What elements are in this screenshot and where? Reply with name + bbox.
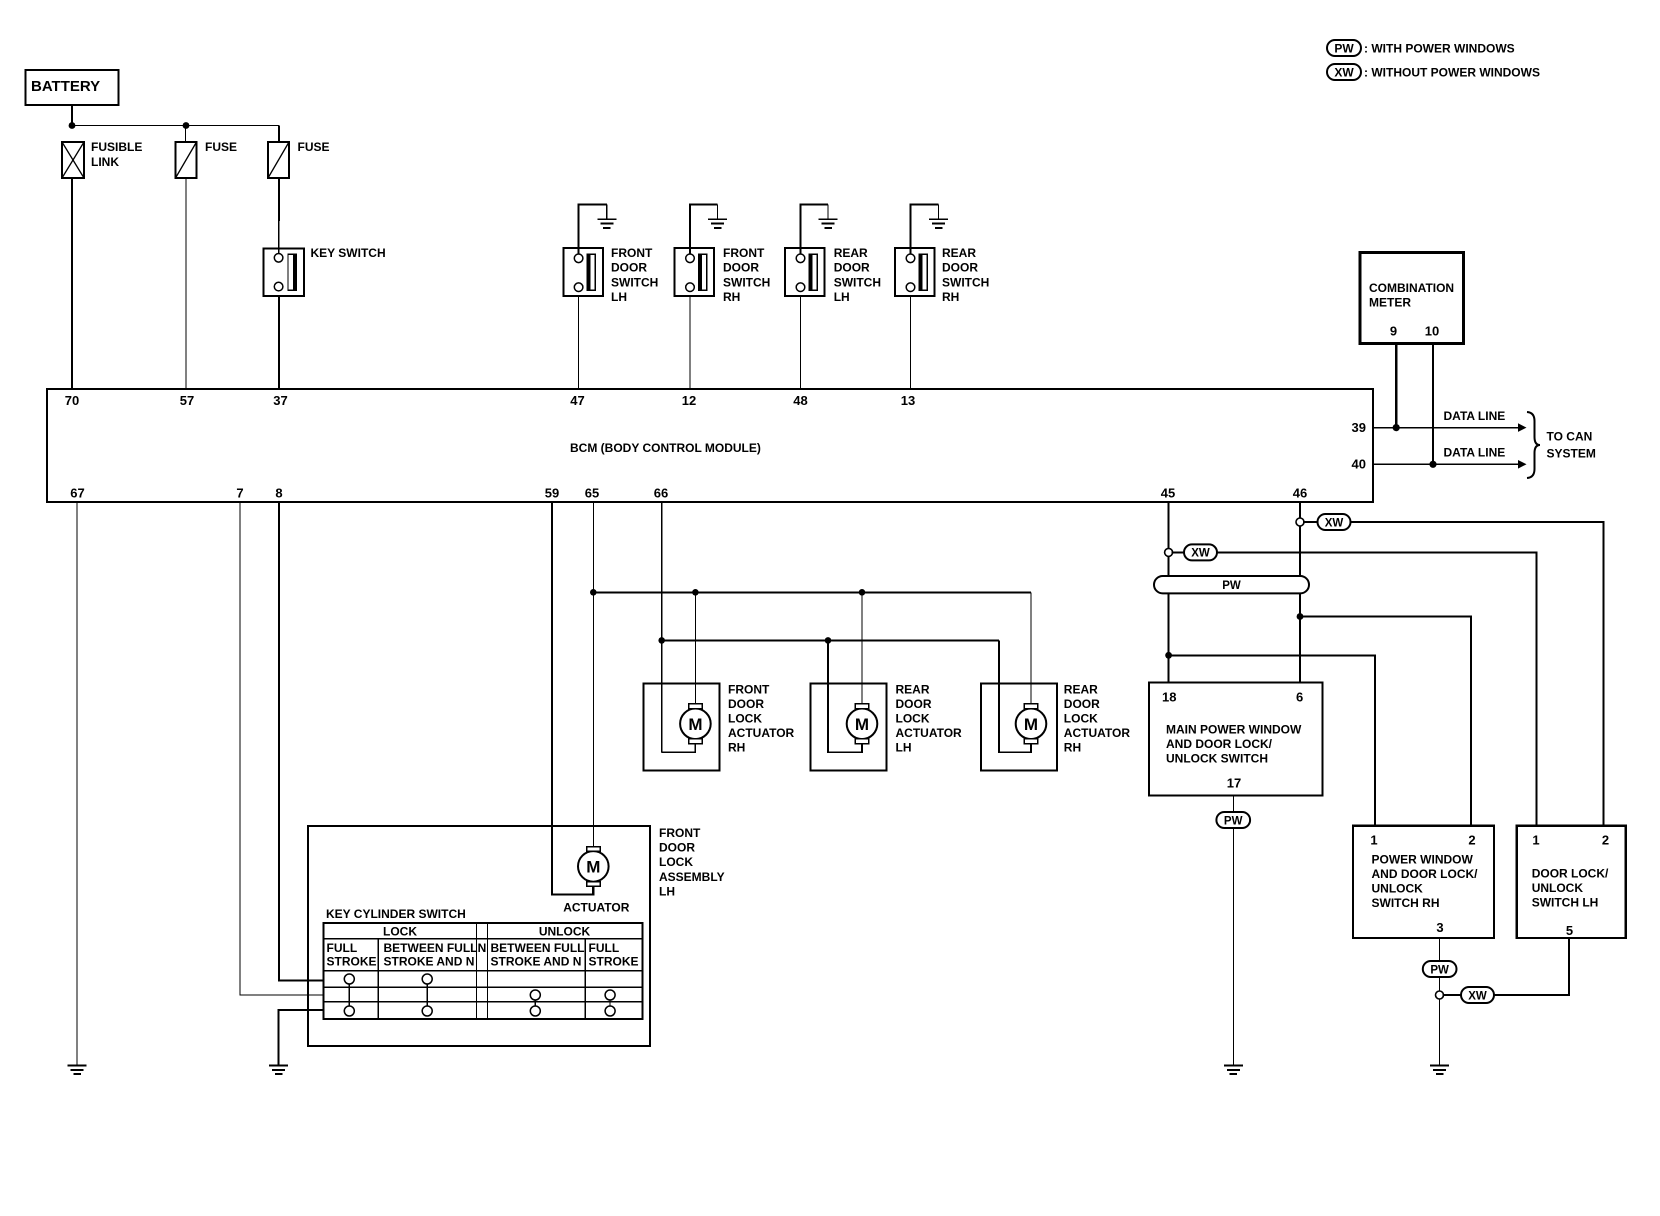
svg-text:RH: RH <box>728 740 745 754</box>
svg-text:FUSIBLE: FUSIBLE <box>91 140 142 154</box>
ground pin 67 <box>68 1065 87 1076</box>
svg-text:ACTUATOR: ACTUATOR <box>1064 726 1131 740</box>
svg-text:FULL: FULL <box>327 941 358 955</box>
wire front actuator RH motor bottom feed <box>662 744 696 753</box>
wire junction B to fuse F1 <box>185 126 187 143</box>
table row A top line <box>323 970 642 972</box>
svg-text:5: 5 <box>1566 923 1573 938</box>
contact col5 row B <box>605 990 615 1000</box>
svg-text:8: 8 <box>275 486 282 501</box>
table N column right line <box>487 923 489 1019</box>
svg-text:9: 9 <box>1390 324 1397 339</box>
svg-text:1: 1 <box>1370 833 1377 848</box>
svg-text:47: 47 <box>570 393 584 408</box>
wire net 66 horizontal <box>662 639 999 641</box>
rear door switch RH <box>895 248 935 296</box>
connector PW pill pin 17 <box>1216 812 1250 828</box>
svg-text:10: 10 <box>1425 324 1439 339</box>
ground front door switch RH <box>708 218 727 229</box>
svg-text:DOOR: DOOR <box>659 841 695 855</box>
wire front door switch RH to BCM pin 12 <box>689 296 691 389</box>
svg-text:ACTUATOR: ACTUATOR <box>896 726 963 740</box>
junction net 65 to front actuator RH <box>692 589 699 596</box>
legend connector XW <box>1327 64 1361 80</box>
svg-text:ACTUATOR: ACTUATOR <box>728 726 795 740</box>
svg-text:LOCK: LOCK <box>383 925 417 939</box>
svg-text:UNLOCK: UNLOCK <box>539 925 591 939</box>
svg-text:REAR: REAR <box>834 246 868 260</box>
wire data line 2 from BCM pin 40 <box>1373 463 1520 465</box>
wire stub pin 45 circle to XW pill <box>1172 551 1185 553</box>
label MAIN POWER WINDOW AND DOOR LOCK UNLOCK SWITCH <box>1166 723 1302 766</box>
svg-text:2: 2 <box>1602 833 1609 848</box>
wire rear actuator LH motor bottom feed <box>828 640 862 752</box>
wire XW net 46 to door lock unlock switch LH pin 2 <box>1351 522 1604 826</box>
ground main switch pin 17 <box>1224 1065 1243 1076</box>
label BETWEEN FULL STROKE AND N col4 <box>491 941 585 969</box>
svg-text:DATA LINE: DATA LINE <box>1444 409 1506 423</box>
contact link col2 <box>426 984 428 1006</box>
junction pin 65 net <box>590 589 597 596</box>
wire BCM pin 59 to assembly actuator motor <box>552 502 593 895</box>
label REAR DOOR LOCK ACTUATOR RH <box>1064 682 1131 754</box>
svg-text:SWITCH: SWITCH <box>834 275 881 289</box>
svg-text:48: 48 <box>793 393 807 408</box>
svg-text:LOCK: LOCK <box>1064 711 1098 725</box>
label REAR DOOR SWITCH LH <box>834 246 881 304</box>
contact col4 row C <box>530 1006 540 1016</box>
svg-text:SWITCH LH: SWITCH LH <box>1532 896 1599 910</box>
contact col2 row C <box>422 1006 432 1016</box>
svg-text:RH: RH <box>723 290 740 304</box>
svg-text:XW: XW <box>1325 517 1344 529</box>
arrow data line 1 <box>1518 423 1527 432</box>
wire BCM pin 46 down to switch pin 6 <box>1299 502 1301 683</box>
wire bus to fuse F2 <box>278 126 280 143</box>
connector circle XW pin 3 <box>1436 991 1444 999</box>
motor M front door lock assembly LH <box>578 847 609 887</box>
rear door switch LH <box>785 248 825 296</box>
svg-text:REAR: REAR <box>942 246 976 260</box>
front door lock assembly LH box <box>308 826 650 1046</box>
svg-text:BATTERY: BATTERY <box>31 78 100 95</box>
svg-text:MAIN POWER WINDOW: MAIN POWER WINDOW <box>1166 723 1302 737</box>
svg-text:PW: PW <box>1222 580 1241 592</box>
contact col5 row C <box>605 1006 615 1016</box>
contact col1 row A <box>344 974 354 984</box>
svg-text:DOOR: DOOR <box>723 261 759 275</box>
svg-text:FUSE: FUSE <box>205 140 237 154</box>
contact col2 row A <box>422 974 432 984</box>
svg-text:XW: XW <box>1191 548 1210 560</box>
wire rear door switch RH to BCM pin 13 <box>910 296 912 389</box>
connector XW pill on pin 45 <box>1184 544 1217 560</box>
svg-text:REAR: REAR <box>1064 682 1098 696</box>
table column separator col1-col2 <box>377 939 379 1019</box>
door lock unlock switch LH box <box>1517 826 1626 938</box>
label FULL STROKE col1 <box>327 941 377 969</box>
svg-text:FRONT: FRONT <box>659 826 701 840</box>
wire combination meter pin 9 to data line <box>1395 344 1397 428</box>
svg-text:KEY CYLINDER SWITCH: KEY CYLINDER SWITCH <box>326 907 466 921</box>
wire combination meter pin 10 to data line <box>1432 344 1434 464</box>
wire PW pin 17 to ground <box>1232 828 1234 1065</box>
ground stem front door switch RH <box>717 205 719 219</box>
svg-text:DOOR: DOOR <box>611 261 647 275</box>
connector PW pill pin 3 <box>1423 961 1457 977</box>
svg-text:LH: LH <box>611 290 627 304</box>
rear door lock actuator LH box <box>811 683 887 770</box>
svg-text:UNLOCK SWITCH: UNLOCK SWITCH <box>1166 752 1268 766</box>
svg-text:AND DOOR LOCK/: AND DOOR LOCK/ <box>1372 867 1479 881</box>
svg-text:COMBINATION: COMBINATION <box>1369 281 1454 295</box>
key switch S1 <box>264 249 305 297</box>
svg-text:PW: PW <box>1224 815 1243 827</box>
junction pin 45 branch <box>1165 652 1172 659</box>
wire stub pin 3 circle to XW pill <box>1443 994 1462 996</box>
ground rear door switch RH <box>929 218 948 229</box>
svg-text:STROKE AND N: STROKE AND N <box>384 954 475 968</box>
svg-text:XW: XW <box>1334 66 1354 80</box>
wire net 65 to front door lock actuator RH motor <box>694 592 696 704</box>
label BETWEEN FULL STROKE AND N col2 <box>384 941 478 969</box>
junction data line 1 <box>1393 424 1400 431</box>
svg-text:PW: PW <box>1430 964 1449 976</box>
contact col4 row B <box>530 990 540 1000</box>
wire BCM pin 65 down <box>592 502 594 847</box>
svg-text:SWITCH: SWITCH <box>942 275 989 289</box>
svg-text:59: 59 <box>545 486 559 501</box>
svg-text:DOOR: DOOR <box>896 697 932 711</box>
svg-text:DOOR LOCK/: DOOR LOCK/ <box>1532 867 1609 881</box>
svg-text:45: 45 <box>1161 486 1175 501</box>
svg-text:PW: PW <box>1334 42 1354 56</box>
svg-text:XW: XW <box>1468 990 1487 1002</box>
table row C top line <box>323 1001 642 1003</box>
svg-text:13: 13 <box>901 393 915 408</box>
svg-text:UNLOCK: UNLOCK <box>1532 881 1584 895</box>
wire stub pin 46 circle to XW pill <box>1303 521 1318 523</box>
fuse F1 <box>176 142 197 178</box>
wire PW pin 3 to ground <box>1439 977 1441 1065</box>
connector PW band over pins 45 and 46 <box>1154 576 1309 593</box>
svg-text:ASSEMBLY: ASSEMBLY <box>659 870 725 884</box>
svg-text:KEY SWITCH: KEY SWITCH <box>311 246 386 260</box>
svg-text:BETWEEN FULL: BETWEEN FULL <box>384 941 478 955</box>
wire rear door switch RH to ground <box>911 205 939 254</box>
svg-text:DOOR: DOOR <box>942 261 978 275</box>
svg-text:LH: LH <box>896 740 912 754</box>
fuse F2 <box>268 142 289 178</box>
label FRONT DOOR LOCK ASSEMBLY LH <box>659 826 725 899</box>
svg-text:SWITCH: SWITCH <box>723 275 770 289</box>
svg-text:LH: LH <box>659 885 675 899</box>
label REAR DOOR SWITCH RH <box>942 246 989 304</box>
contact col1 row C <box>344 1006 354 1016</box>
wire rear door switch LH to ground <box>801 205 829 254</box>
wire rear actuator RH motor bottom feed <box>999 640 1031 752</box>
wire BCM pin 45 down to switch pin 18 <box>1168 502 1170 683</box>
label FRONT DOOR SWITCH RH <box>723 246 770 304</box>
wire key cylinder switch row C to ground <box>279 1010 324 1065</box>
svg-text:6: 6 <box>1296 689 1303 704</box>
svg-text:SWITCH RH: SWITCH RH <box>1372 896 1440 910</box>
svg-text:FULL: FULL <box>589 941 620 955</box>
wire fuse F1 to BCM pin 57 <box>185 178 187 389</box>
front door lock actuator RH box <box>643 683 719 770</box>
svg-text:RH: RH <box>942 290 959 304</box>
svg-text:POWER WINDOW: POWER WINDOW <box>1372 853 1474 867</box>
svg-text:TO CAN: TO CAN <box>1547 430 1593 444</box>
svg-text:12: 12 <box>682 393 696 408</box>
junction A <box>69 122 76 129</box>
junction net 65 to rear actuator LH <box>859 589 866 596</box>
svg-text:REAR: REAR <box>896 682 930 696</box>
junction net 66 to rear actuator LH <box>825 637 832 644</box>
wire net 65 to rear door lock actuator LH motor <box>861 592 863 704</box>
svg-text:2: 2 <box>1468 833 1475 848</box>
svg-text:FRONT: FRONT <box>723 246 765 260</box>
svg-text:DOOR: DOOR <box>1064 697 1100 711</box>
svg-text:ACTUATOR: ACTUATOR <box>563 901 630 915</box>
label TO CAN SYSTEM <box>1547 430 1596 461</box>
label FRONT DOOR LOCK ACTUATOR RH <box>728 682 795 754</box>
label POWER WINDOW AND DOOR LOCK UNLOCK SWITCH RH <box>1372 853 1479 911</box>
wire rear door switch LH to BCM pin 48 <box>800 296 802 389</box>
arrow data line 2 <box>1518 460 1527 469</box>
motor M rear door lock actuator RH <box>1016 704 1047 744</box>
junction pin 46 branch <box>1297 613 1304 620</box>
svg-text:67: 67 <box>70 486 84 501</box>
svg-text:FRONT: FRONT <box>728 682 770 696</box>
connector circle XW pin 46 <box>1296 518 1304 526</box>
power window and door lock unlock switch RH box <box>1353 826 1494 938</box>
svg-text:FUSE: FUSE <box>298 140 330 154</box>
contact link col4 <box>534 1000 536 1006</box>
contact link col1 <box>348 984 350 1006</box>
svg-text:LOCK: LOCK <box>728 711 762 725</box>
fusible link FL <box>62 142 84 178</box>
label FUSIBLE LINK <box>91 140 142 169</box>
svg-text:40: 40 <box>1352 457 1366 472</box>
main power window and door lock unlock switch box <box>1149 683 1323 796</box>
connector XW pill on pin 46 <box>1318 514 1351 530</box>
front door switch RH <box>675 248 715 296</box>
svg-text:18: 18 <box>1162 689 1176 704</box>
svg-text:65: 65 <box>585 486 599 501</box>
svg-text:1: 1 <box>1532 833 1539 848</box>
wire pin 46 branch to power window switch RH pin 2 <box>1300 617 1471 826</box>
key cylinder switch table frame <box>323 923 642 1019</box>
rear door lock actuator RH box <box>981 683 1057 770</box>
svg-text:70: 70 <box>65 393 79 408</box>
wire battery bus <box>72 125 279 127</box>
front door switch LH <box>563 248 603 296</box>
brace to CAN system <box>1527 412 1540 478</box>
connector circle XW pin 45 <box>1165 548 1173 556</box>
svg-text:BCM (BODY CONTROL MODULE): BCM (BODY CONTROL MODULE) <box>570 441 761 455</box>
wire net 65 to rear door lock actuator RH motor <box>1030 592 1032 704</box>
table header separator line <box>323 938 642 940</box>
wire main switch pin 17 to PW connector <box>1232 796 1234 813</box>
svg-text:BETWEEN FULL: BETWEEN FULL <box>491 941 585 955</box>
BCM (body control module) box <box>47 389 1373 502</box>
ground front door switch LH <box>597 218 616 229</box>
wire BCM pin 67 to ground <box>76 502 78 1065</box>
svg-text:LOCK: LOCK <box>896 711 930 725</box>
motor M front door lock actuator RH <box>680 704 711 744</box>
wire BCM pin 8 to key cylinder switch row A <box>279 502 323 981</box>
junction pin 66 net <box>658 637 665 644</box>
svg-text:46: 46 <box>1293 486 1307 501</box>
svg-text:RH: RH <box>1064 740 1081 754</box>
table N column left line <box>476 923 478 1019</box>
wire key switch to BCM pin 37 <box>278 296 280 389</box>
battery B1 <box>26 70 119 105</box>
svg-text:SYSTEM: SYSTEM <box>1547 446 1596 460</box>
svg-text:SWITCH: SWITCH <box>611 275 658 289</box>
wire front door switch LH to BCM pin 47 <box>578 296 580 389</box>
svg-text:N: N <box>478 941 487 955</box>
svg-text:DOOR: DOOR <box>728 697 764 711</box>
svg-text:AND DOOR LOCK/: AND DOOR LOCK/ <box>1166 737 1273 751</box>
contact link col5 <box>609 1000 611 1006</box>
ground power window switch RH pin 3 <box>1430 1065 1449 1076</box>
wire pin 45 branch to power window switch RH pin 1 <box>1169 655 1375 825</box>
svg-text:7: 7 <box>236 486 243 501</box>
ground stem rear door switch RH <box>938 205 940 219</box>
connector XW pill pin 3 <box>1461 987 1494 1003</box>
svg-text:STROKE: STROKE <box>327 954 377 968</box>
wire power window switch RH pin 3 to PW connector <box>1439 938 1441 961</box>
svg-text:DATA LINE: DATA LINE <box>1444 446 1506 460</box>
wire XW pin 3 to door lock unlock switch LH pin 5 <box>1494 938 1569 995</box>
wire front door switch RH to ground <box>690 205 718 254</box>
legend connector PW <box>1327 40 1361 56</box>
wire net 65 horizontal <box>593 591 1031 593</box>
combination meter box <box>1360 252 1463 343</box>
svg-text:UNLOCK: UNLOCK <box>1372 882 1424 896</box>
wire fusible link to BCM pin 70 <box>71 178 73 389</box>
table column separator col4-col5 <box>584 939 586 1019</box>
svg-text:: WITHOUT POWER WINDOWS: : WITHOUT POWER WINDOWS <box>1364 66 1540 80</box>
wire front door switch LH to ground <box>579 205 607 254</box>
svg-text:LOCK: LOCK <box>659 855 693 869</box>
wire data line 1 from BCM pin 39 <box>1373 427 1520 429</box>
wire fuse F2 to key switch <box>278 178 281 254</box>
svg-text:39: 39 <box>1352 420 1366 435</box>
svg-text:LINK: LINK <box>91 155 119 169</box>
svg-text:METER: METER <box>1369 296 1411 310</box>
label DOOR LOCK UNLOCK SWITCH LH <box>1532 867 1609 910</box>
svg-text:: WITH POWER WINDOWS: : WITH POWER WINDOWS <box>1364 42 1515 56</box>
svg-text:17: 17 <box>1227 776 1241 791</box>
junction B <box>183 122 190 129</box>
ground stem rear door switch LH <box>827 205 829 219</box>
ground rear door switch LH <box>819 218 838 229</box>
svg-text:FRONT: FRONT <box>611 246 653 260</box>
svg-text:STROKE AND N: STROKE AND N <box>491 954 582 968</box>
svg-text:3: 3 <box>1436 920 1443 935</box>
svg-text:66: 66 <box>654 486 668 501</box>
svg-text:57: 57 <box>180 393 194 408</box>
label REAR DOOR LOCK ACTUATOR LH <box>896 682 963 754</box>
wire XW net 45 to door lock unlock switch LH pin 1 <box>1217 552 1537 825</box>
motor M rear door lock actuator LH <box>847 704 878 744</box>
ground stem front door switch LH <box>606 205 608 219</box>
wire BCM pin 66 down <box>661 502 663 752</box>
svg-text:DOOR: DOOR <box>834 261 870 275</box>
label FULL STROKE col5 <box>589 941 639 969</box>
wire BCM pin 7 to key cylinder switch row B <box>240 502 323 995</box>
label FRONT DOOR SWITCH LH <box>611 246 658 304</box>
svg-text:37: 37 <box>273 393 287 408</box>
svg-text:LH: LH <box>834 290 850 304</box>
junction data line 2 <box>1429 461 1436 468</box>
wire battery to junction A <box>71 105 73 126</box>
svg-text:STROKE: STROKE <box>589 954 639 968</box>
table row B top line <box>323 986 642 988</box>
ground key cylinder switch <box>269 1065 288 1076</box>
